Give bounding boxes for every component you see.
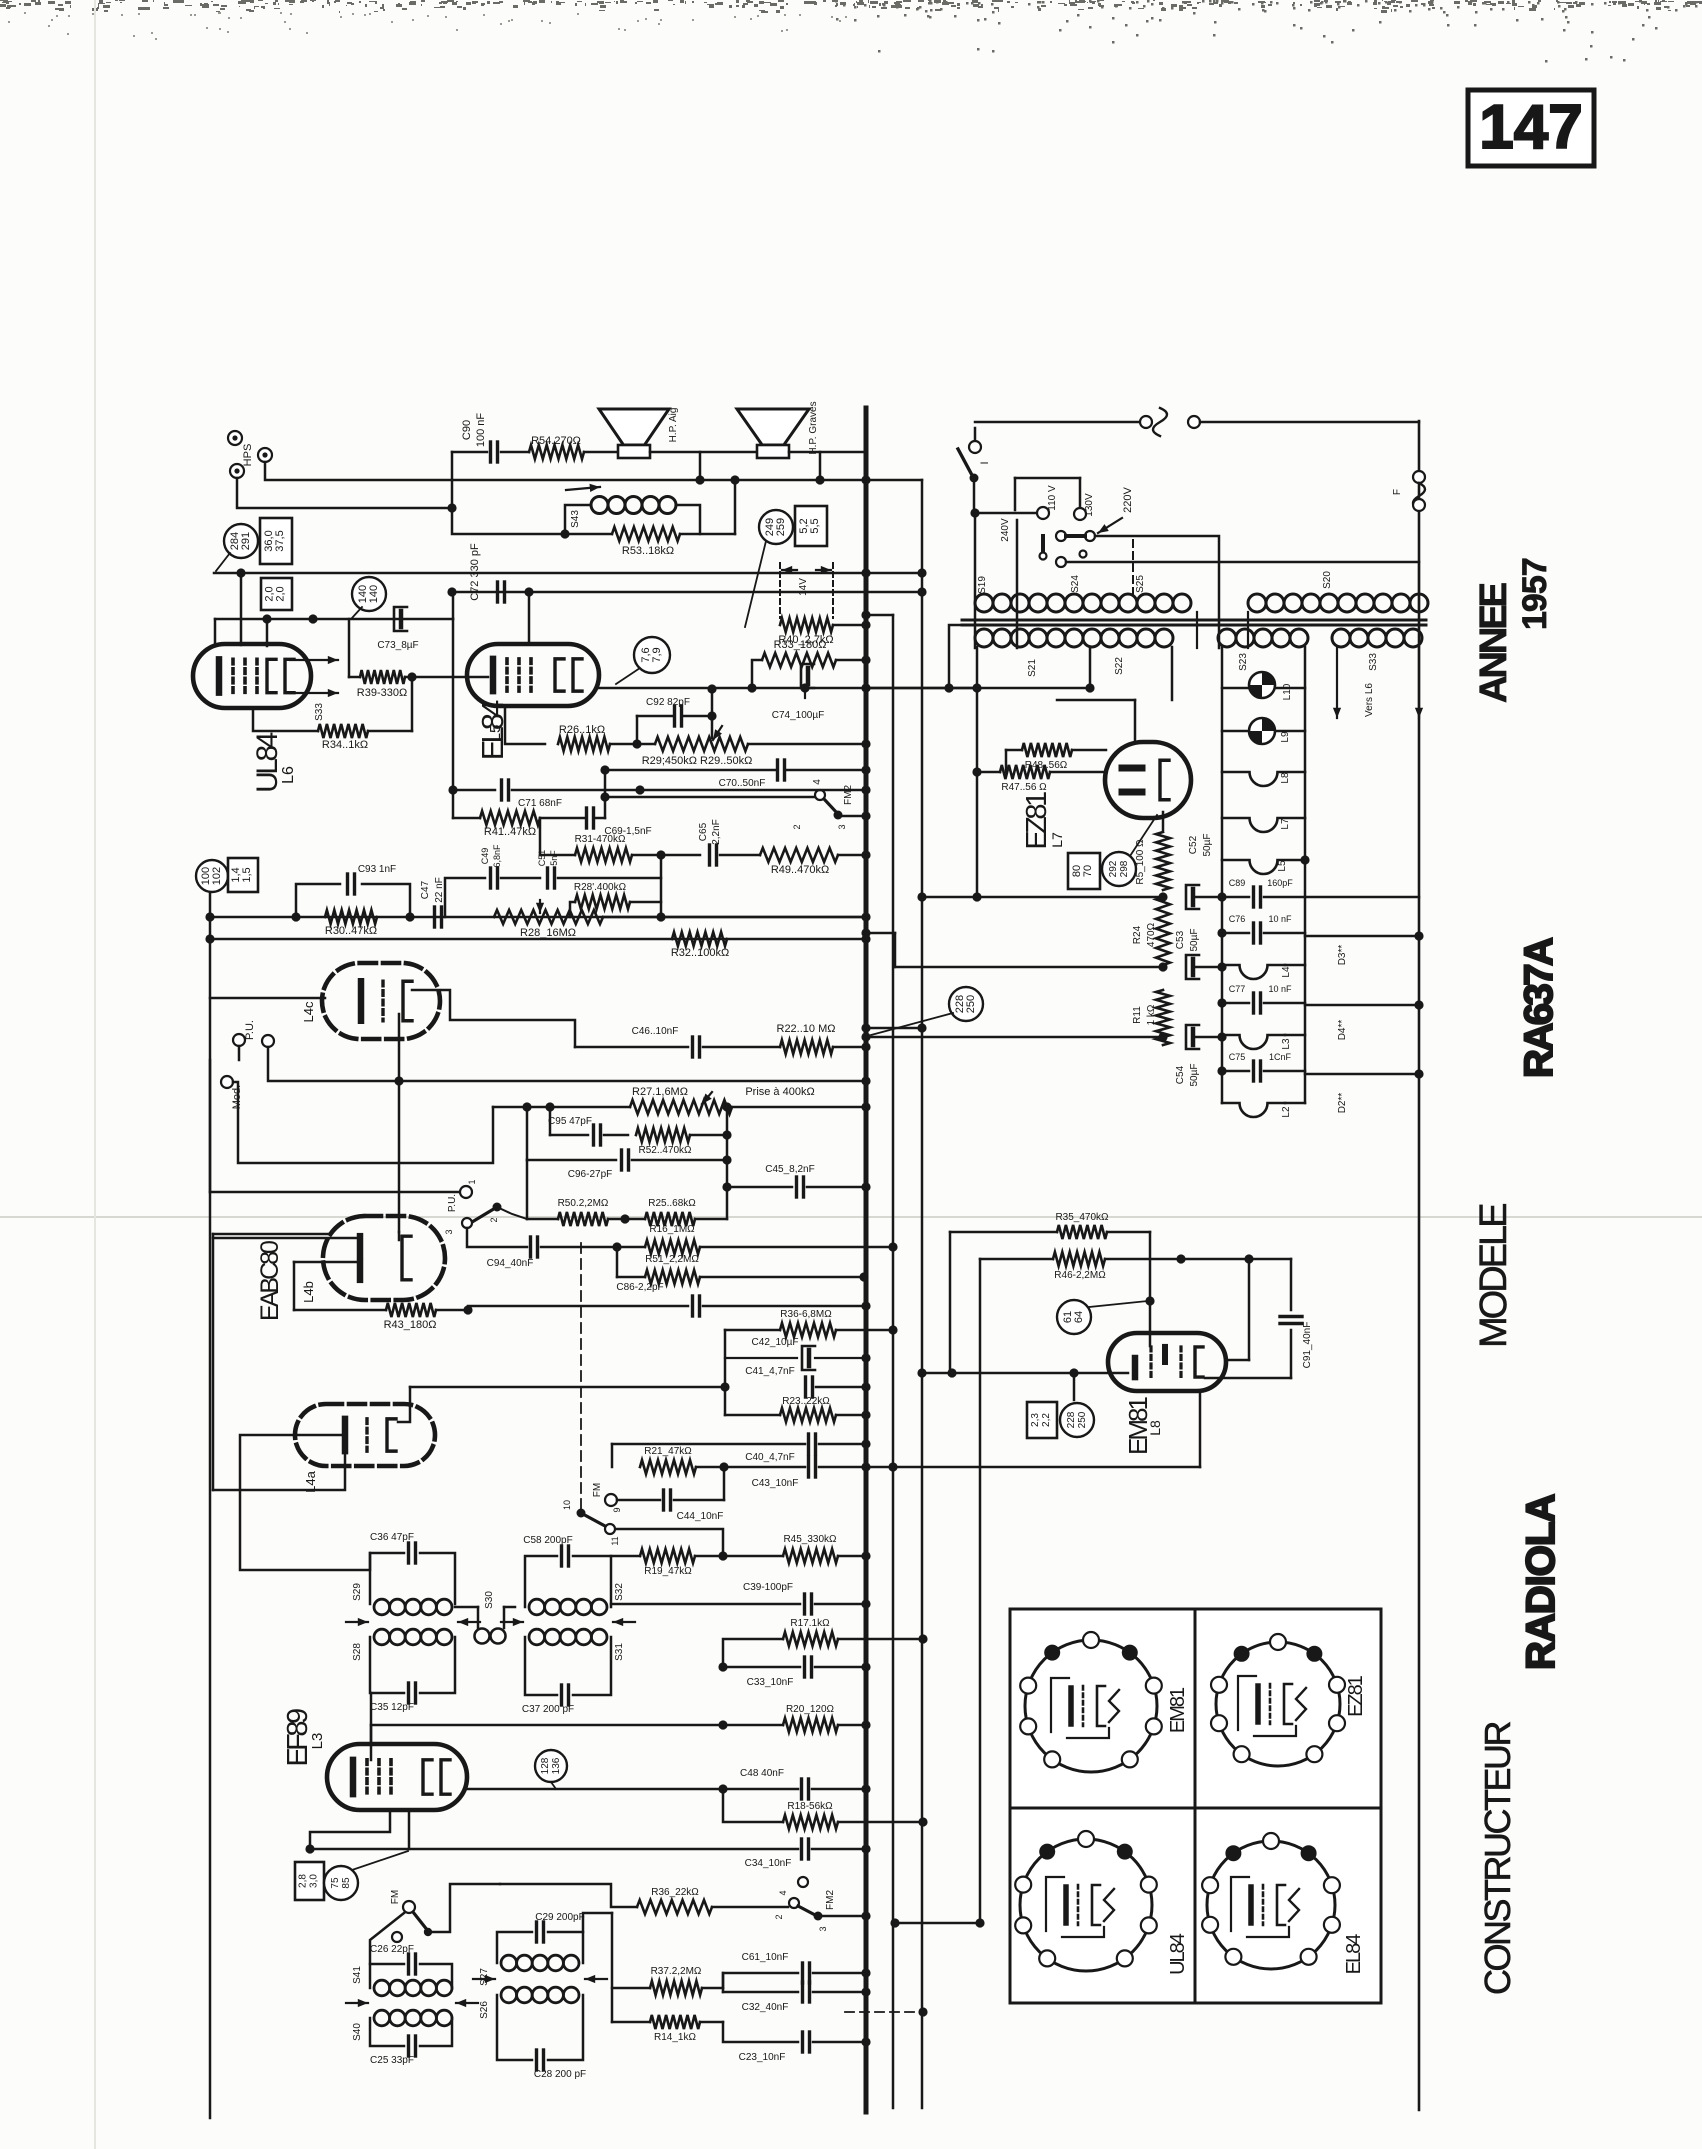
svg-text:R30..47kΩ: R30..47kΩ (325, 925, 377, 937)
wire vers L6 arrows (1336, 647, 1338, 718)
svg-text:D3**: D3** (1337, 945, 1348, 966)
svg-text:R53..18kΩ: R53..18kΩ (622, 545, 674, 557)
wire v612 (611, 1913, 614, 2022)
wire EF89 grid (370, 1745, 373, 1760)
node jack FM 9 (605, 1494, 617, 1506)
wire v527 (526, 1160, 529, 1219)
capacitor C53 50uF (1186, 955, 1199, 979)
node pointer 284/291 (224, 524, 258, 558)
svg-text:C93 1nF: C93 1nF (358, 864, 396, 875)
svg-text:EABC80: EABC80 (256, 1241, 284, 1321)
lamp L10 (1222, 687, 1305, 690)
wire down (604, 770, 607, 797)
resistor R24 470ohm (1156, 897, 1170, 965)
svg-text:R24: R24 (1132, 925, 1143, 944)
capacitor C40 4,7nF (612, 1443, 805, 1446)
svg-text:C44_10nF: C44_10nF (677, 1511, 724, 1522)
svg-text:C72 330 pF: C72 330 pF (469, 543, 481, 601)
wire stub bus right (866, 614, 893, 617)
svg-text:C51: C51 (537, 850, 547, 867)
svg-text:C34_10nF: C34_10nF (745, 1858, 792, 1869)
node label box EM81 (1199, 1392, 1202, 1467)
svg-text:P.U.: P.U. (244, 1020, 256, 1040)
svg-text:FM: FM (390, 1890, 401, 1904)
resistor R26 1k (558, 737, 610, 751)
tube EABC80 L4c (triode) (322, 963, 440, 1039)
wire speaker1 drop (699, 452, 702, 480)
resistor R43 180ohm (294, 1309, 386, 1312)
svg-text:C45_8,2nF: C45_8,2nF (765, 1164, 814, 1175)
capacitor C91 40nF (1290, 1259, 1293, 1310)
wire 11 to R19 row (616, 1529, 723, 1556)
resistor R40 2,7k dashed 14V (779, 563, 781, 618)
svg-text:RA637A: RA637A (1517, 938, 1561, 1078)
wire main HT bus (864, 408, 869, 2112)
resistor R22 10M (780, 1040, 833, 1054)
transformer S41 (374, 1980, 390, 1996)
svg-text:EM81: EM81 (1167, 1687, 1189, 1733)
svg-text:R28'.400kΩ: R28'.400kΩ (574, 882, 627, 893)
svg-text:EZ81: EZ81 (1345, 1675, 1367, 1717)
svg-text:R35_470kΩ: R35_470kΩ (1055, 1212, 1109, 1223)
tube UL84 L6 (193, 644, 311, 708)
svg-text:C28 200 pF: C28 200 pF (534, 2069, 586, 2080)
wire prim ends (1196, 612, 1198, 648)
svg-text:H.P. Graves: H.P. Graves (808, 401, 819, 454)
svg-text:R36_22kΩ: R36_22kΩ (651, 1887, 699, 1898)
svg-text:7,9: 7,9 (651, 647, 663, 662)
capacitor C45 8,2nF (727, 1186, 792, 1189)
wire C89 right (1305, 896, 1419, 899)
svg-text:C52: C52 (1188, 835, 1199, 854)
wire EL84 grid to R26 (505, 706, 545, 744)
wire grid line row (214, 572, 922, 575)
svg-text:259: 259 (775, 518, 787, 536)
svg-text:R11: R11 (1132, 1006, 1143, 1024)
tuning arrows IF2 (501, 1621, 523, 1623)
svg-text:C65: C65 (698, 822, 709, 841)
resistor R31 470k (540, 854, 575, 857)
svg-text:110 V: 110 V (1047, 485, 1058, 511)
resistor R39 330ohm (348, 619, 351, 677)
wire C77 right (1305, 1004, 1419, 1007)
svg-text:L5: L5 (1277, 860, 1288, 872)
wire R34 up to R39 node (411, 677, 414, 731)
wire heater row (866, 687, 1090, 690)
svg-text:L8: L8 (1280, 772, 1291, 784)
capacitor C95 47pF (549, 1107, 552, 1135)
resistor R28' 400k loop (570, 902, 575, 917)
node pointer 249/259 (759, 510, 793, 544)
svg-text:C71 68nF: C71 68nF (518, 798, 562, 809)
svg-text:C54: C54 (1175, 1065, 1186, 1084)
svg-text:Prise à 400kΩ: Prise à 400kΩ (745, 1086, 814, 1098)
svg-text:C92 82pF: C92 82pF (646, 697, 690, 708)
svg-text:130V: 130V (1084, 493, 1095, 517)
wire C72 row (452, 591, 922, 594)
wire dashed tap S24/S25 (1132, 540, 1134, 600)
transformer S26 (501, 1987, 517, 2003)
switch rotor 220V (1056, 531, 1066, 541)
node pointer 75/85 (324, 1866, 358, 1900)
svg-text:L9: L9 (1280, 731, 1291, 743)
switch PU lever (493, 1203, 502, 1212)
svg-text:50µF: 50µF (1202, 834, 1213, 857)
svg-text:1 kΩ: 1 kΩ (1146, 1004, 1157, 1025)
capacitor C35 12pF (370, 1637, 404, 1693)
socket EZ81 (1216, 1642, 1340, 1766)
node jack FM bottom (403, 1901, 415, 1913)
resistor R36b 22k row (500, 1884, 637, 1907)
switch I mains (974, 428, 977, 441)
capacitor C41 4,7nF (410, 1386, 725, 1389)
capacitor C54 50uF (1186, 1025, 1199, 1049)
svg-text:C41_4,7nF: C41_4,7nF (745, 1366, 794, 1377)
wire L4a grid left (240, 1435, 370, 1570)
wire v661 down (660, 855, 663, 917)
fuse F (1413, 471, 1425, 483)
node box 2,0/2,0 (261, 578, 292, 610)
resistor R51 2,2M (616, 1247, 619, 1277)
inductor L7 (1222, 818, 1305, 832)
svg-text:FM2: FM2 (843, 785, 854, 805)
wire UL84 cathode to R34 (253, 708, 318, 731)
svg-text:C89: C89 (1229, 878, 1246, 888)
svg-text:R19_47kΩ: R19_47kΩ (644, 1566, 692, 1577)
wire PU1 (238, 1046, 241, 1060)
wire IF1 grid down (370, 1693, 373, 1745)
capacitor C23 10nF (723, 2022, 798, 2042)
node box 2,8/3,0 (295, 1862, 324, 1900)
svg-text:R49..470kΩ: R49..470kΩ (771, 864, 829, 876)
resistor R50 2,2M (527, 1218, 558, 1221)
capacitor C32 40nF (722, 1973, 725, 1992)
svg-text:1: 1 (467, 1179, 477, 1184)
node pointer 228/250 b (1060, 1403, 1094, 1437)
svg-text:6,8nF: 6,8nF (492, 844, 502, 868)
wire can4 top to FM (370, 1913, 404, 1964)
svg-text:240V: 240V (1000, 518, 1011, 542)
wire R39 to EL84 (412, 676, 488, 679)
node jack P.U. top (233, 1034, 245, 1046)
switch FM 10-11 (577, 1509, 586, 1518)
wire screen row R20 (371, 1724, 783, 1727)
node selector bracket (1015, 477, 1080, 480)
svg-text:R18-56kΩ: R18-56kΩ (787, 1801, 833, 1812)
node box 1,4/1,5 (228, 858, 258, 892)
capacitor C34 10nF (310, 1848, 798, 1851)
wire right separator / fuse line (1418, 421, 1421, 2110)
svg-text:R20_120Ω: R20_120Ω (786, 1704, 835, 1715)
svg-text:14V: 14V (798, 578, 809, 596)
svg-text:R14_1kΩ: R14_1kΩ (654, 2032, 696, 2043)
capacitor C39 100pF (611, 1603, 800, 1606)
node pointer 100/102 (196, 860, 228, 892)
svg-text:2,2nF: 2,2nF (711, 819, 722, 845)
wire gang dashed bottom (845, 2011, 923, 2013)
svg-text:R47..56 Ω: R47..56 Ω (1001, 782, 1047, 793)
wire HPS to rail (265, 462, 922, 480)
resistor R47 56ohm (977, 771, 1000, 774)
wire L4c diode drop (398, 1014, 401, 1232)
svg-text:2,3: 2,3 (1030, 1413, 1041, 1427)
svg-text:C47: C47 (420, 880, 431, 899)
svg-text:R32..100kΩ: R32..100kΩ (671, 947, 729, 959)
svg-text:64: 64 (1073, 1311, 1085, 1323)
svg-text:2: 2 (792, 824, 802, 829)
resistor R21 47k (611, 1444, 614, 1467)
tube EF89 L3 (327, 1744, 467, 1810)
svg-text:R22..10 MΩ: R22..10 MΩ (777, 1023, 836, 1035)
capacitor C28 200pF (497, 1995, 532, 2060)
svg-text:S21: S21 (1027, 659, 1038, 677)
capacitor C58 200pF (525, 1556, 557, 1607)
inductor S30 (477, 1607, 480, 1628)
svg-text:C42_10µF: C42_10µF (752, 1337, 799, 1348)
svg-text:C40_4,7nF: C40_4,7nF (745, 1452, 794, 1463)
wire pot tap vertical (726, 1107, 729, 1219)
svg-text:S26: S26 (479, 2001, 490, 2019)
transformer S40 (374, 2010, 390, 2026)
capacitor C86 2,2pF (468, 1305, 688, 1308)
svg-text:C25 33pF: C25 33pF (370, 2055, 414, 2066)
wire L4a plate up (398, 1387, 410, 1422)
ganged switch dashed (580, 1243, 582, 1512)
wire FM3 wiring (428, 1884, 500, 1932)
wire rotor right (1095, 536, 1219, 648)
svg-text:R26..1kΩ: R26..1kΩ (559, 724, 605, 736)
wire EM81 grid drop (1149, 1232, 1152, 1346)
capacitor C75 10nF (1222, 1070, 1249, 1073)
svg-text:70: 70 (1082, 865, 1094, 877)
node box 80/70 (1068, 853, 1100, 889)
svg-text:EL84: EL84 (1343, 1934, 1365, 1975)
svg-text:S20: S20 (1322, 571, 1333, 589)
wire left rail (209, 876, 212, 2118)
svg-text:R54.270Ω: R54.270Ω (531, 435, 581, 447)
node box 2,3/2,2 (1027, 1402, 1057, 1438)
svg-text:P.U.: P.U. (447, 1194, 458, 1212)
svg-text:RADIOLA: RADIOLA (1519, 1495, 1563, 1670)
potentiometer R27 1,6M / Prise 400k (493, 1106, 630, 1109)
svg-text:L10: L10 (1282, 683, 1293, 700)
svg-text:11: 11 (610, 1536, 620, 1545)
wire R53 to speaker2 branch (734, 480, 737, 534)
svg-text:C37 200 pF: C37 200 pF (522, 1704, 574, 1715)
svg-text:102: 102 (211, 867, 223, 885)
svg-text:S33: S33 (314, 703, 325, 721)
svg-text:2,8: 2,8 (298, 1874, 309, 1888)
resistor R48 56ohm (1006, 749, 1022, 752)
capacitor C89 160pF (1252, 887, 1255, 907)
svg-text:L8: L8 (1147, 1420, 1163, 1436)
wire EL84 plate up (528, 592, 531, 644)
svg-text:2,2: 2,2 (1041, 1413, 1052, 1427)
svg-text:R45_330kΩ: R45_330kΩ (783, 1534, 837, 1545)
svg-text:2: 2 (774, 1914, 784, 1919)
node top-edge-noise (0, 0, 1702, 63)
svg-text:3: 3 (444, 1229, 454, 1234)
svg-text:L3: L3 (309, 1733, 326, 1750)
svg-text:2,0: 2,0 (275, 586, 287, 601)
capacitor C77 10nF (1222, 1002, 1249, 1005)
resistor R25 68k (645, 1212, 695, 1226)
svg-text:F: F (1392, 489, 1403, 495)
resistor R34 1k (318, 724, 368, 738)
svg-text:R39-330Ω: R39-330Ω (357, 687, 407, 699)
switch FM3 (413, 1912, 428, 1931)
svg-text:75: 75 (330, 1877, 341, 1889)
tuning arrows IF3 (473, 1978, 495, 1980)
wire hline 1028 (866, 1027, 922, 1030)
resistor R14 1k (612, 2021, 650, 2024)
wire speaker2 to bus (789, 451, 866, 454)
inductor S43 (566, 487, 600, 490)
svg-text:FM: FM (592, 1483, 603, 1497)
svg-text:R27.1,6MΩ: R27.1,6MΩ (632, 1086, 688, 1098)
wire EZ81 plates top (1134, 700, 1137, 742)
capacitor C74 100uF (801, 664, 814, 688)
svg-text:C76: C76 (1229, 914, 1246, 924)
svg-text:R50.2,2MΩ: R50.2,2MΩ (558, 1198, 609, 1209)
resistor R17 1k (723, 1639, 783, 1667)
wire EL84 plate row to transformer (599, 687, 975, 690)
wire sw2 to row (497, 1207, 527, 1219)
svg-text:Vers L6: Vers L6 (1364, 683, 1375, 717)
speaker H.P. Graves (737, 409, 809, 445)
svg-text:L2: L2 (1281, 1106, 1292, 1118)
svg-text:C94_40nF: C94_40nF (487, 1258, 534, 1269)
wire can3 right rail up (583, 1913, 612, 1932)
wire mains top (975, 421, 1140, 424)
svg-text:C23_10nF: C23_10nF (739, 2052, 786, 2063)
node page-number 147 (1468, 90, 1594, 166)
wire HPS lower branch (237, 478, 452, 508)
wire S43 loop (452, 508, 565, 534)
svg-text:50µF: 50µF (1189, 929, 1200, 952)
inductor L3 (1222, 1035, 1285, 1049)
wire left core link (949, 625, 962, 688)
speaker H.P. Aigu (599, 409, 669, 445)
capacitor C46 10nF (575, 1046, 688, 1049)
resistor R45 330k (783, 1549, 838, 1563)
switch FM2 lower (712, 1906, 788, 1909)
capacitor C65 2,2nF (708, 845, 711, 865)
svg-text:R52..470kΩ: R52..470kΩ (638, 1145, 692, 1156)
svg-text:2: 2 (489, 1217, 499, 1222)
switch FM2 top (605, 796, 814, 799)
wire screen row (215, 618, 453, 621)
svg-text:S43: S43 (570, 510, 581, 528)
svg-text:160pF: 160pF (1267, 878, 1293, 888)
svg-text:291: 291 (240, 532, 252, 550)
svg-text:140: 140 (368, 585, 380, 603)
tube EZ81 L7 (1105, 742, 1191, 818)
wire 240V tap (1016, 520, 1019, 648)
svg-text:R43_180Ω: R43_180Ω (384, 1319, 437, 1331)
capacitor C37 200pF (525, 1637, 557, 1695)
capacitor C44 10nF (617, 1499, 660, 1502)
svg-text:S31: S31 (614, 1643, 625, 1661)
wire EM81 diode drop (1248, 1259, 1251, 1360)
node pointer 228/250 (949, 987, 983, 1021)
svg-text:C26 22pF: C26 22pF (370, 1944, 414, 1955)
transformer secondary S23 (1218, 629, 1236, 647)
wire heater row897 (922, 896, 1160, 899)
wire S30 links (455, 1606, 478, 1609)
transformer S27 (501, 1955, 517, 1971)
svg-text:R40_2,7kΩ: R40_2,7kΩ (778, 634, 833, 646)
svg-text:R46-2,2MΩ: R46-2,2MΩ (1054, 1270, 1106, 1281)
svg-text:220V: 220V (1122, 486, 1134, 512)
resistor R35 470k (949, 1232, 952, 1373)
svg-text:L7: L7 (1049, 832, 1065, 848)
wire L4c grid (210, 997, 325, 1000)
svg-text:10 nF: 10 nF (1268, 984, 1292, 994)
svg-text:3: 3 (837, 824, 847, 829)
svg-text:S30: S30 (484, 1591, 495, 1609)
svg-text:100 nF: 100 nF (475, 413, 487, 448)
capacitor C94 40nF (467, 1228, 527, 1247)
svg-text:D4**: D4** (1337, 1020, 1348, 1041)
svg-text:R31-470kΩ: R31-470kΩ (575, 834, 626, 845)
transformer secondary S21 S22 (975, 629, 993, 647)
svg-text:136: 136 (551, 1757, 562, 1774)
wire R46 bottom link (895, 1922, 980, 1925)
resistor R11 1k (1156, 990, 1170, 1045)
node pointer 128/136 (535, 1750, 567, 1782)
node jack PU sw (460, 1186, 472, 1198)
socket UL84 (1020, 1839, 1152, 1971)
resistor R33 180ohm (752, 660, 762, 688)
svg-text:C74_100µF: C74_100µF (772, 710, 824, 721)
inductor L4 (1222, 965, 1285, 979)
capacitor C76 10nF (1222, 932, 1249, 935)
wire EM81 cathode row (922, 1372, 1128, 1375)
capacitor C47 22nF (433, 907, 436, 927)
svg-text:C70..50nF: C70..50nF (719, 778, 766, 789)
tube EABC80 L4a (295, 1404, 435, 1466)
capacitor C96 27pF (526, 1107, 529, 1160)
wire C76 right (1305, 935, 1419, 938)
svg-text:MODELE: MODELE (1473, 1204, 1515, 1348)
svg-text:R41..47kΩ: R41..47kΩ (484, 826, 536, 838)
svg-text:R21_47kΩ: R21_47kΩ (644, 1446, 692, 1457)
svg-text:C29 200pF: C29 200pF (535, 1912, 584, 1923)
wire C43 row to EM81 box (893, 1466, 1200, 1469)
svg-text:C43_10nF: C43_10nF (752, 1478, 799, 1489)
svg-text:S24: S24 (1070, 575, 1081, 593)
svg-text:C49: C49 (480, 848, 490, 865)
svg-text:S19: S19 (977, 576, 988, 594)
svg-text:R37.2,2MΩ: R37.2,2MΩ (651, 1966, 702, 1977)
svg-text:L4c: L4c (301, 1001, 316, 1022)
svg-text:37,5: 37,5 (274, 530, 286, 551)
svg-text:R16_1MΩ: R16_1MΩ (649, 1224, 695, 1235)
svg-text:298: 298 (1119, 860, 1130, 877)
tuning arrows IF1 (346, 1621, 368, 1623)
resistor R52 470k (636, 1128, 690, 1142)
svg-text:S40: S40 (352, 2023, 363, 2041)
wire 110 tap (1041, 536, 1045, 550)
svg-text:R17.1kΩ: R17.1kΩ (790, 1618, 830, 1629)
node pointer 61/64 (1057, 1300, 1091, 1334)
node jack Mod. (221, 1076, 233, 1088)
transformer S29 (374, 1599, 390, 1615)
svg-text:4: 4 (778, 1890, 788, 1895)
svg-text:C48 40nF: C48 40nF (740, 1768, 784, 1779)
capacitor C61 10nF (723, 1973, 798, 1988)
